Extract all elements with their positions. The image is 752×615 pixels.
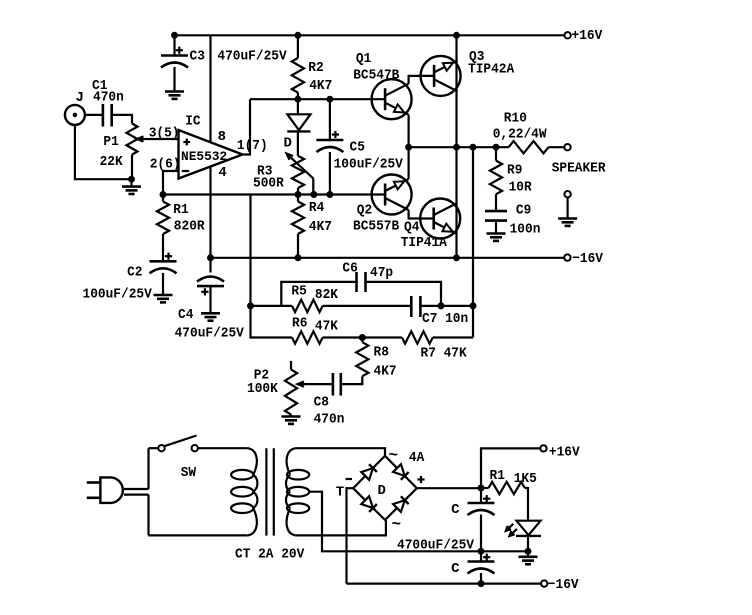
svg-text:470n: 470n <box>93 90 124 106</box>
svg-text:~: ~ <box>389 447 399 465</box>
wire R6 to R8 node <box>323 336 402 338</box>
resistor R10 <box>509 141 565 153</box>
label J <box>76 90 84 106</box>
node Q1/Q2 emitters <box>406 144 412 150</box>
svg-text:470n: 470n <box>314 412 345 428</box>
LED light arrows <box>506 524 517 536</box>
svg-text:C5: C5 <box>350 140 365 156</box>
resistor R7 <box>402 331 473 343</box>
label D (bridge) <box>378 483 386 499</box>
wire bridge minus to bottom rail <box>347 488 354 583</box>
svg-text:C2: C2 <box>127 265 142 281</box>
trimmer R3 <box>292 156 304 195</box>
transistor Q2 BC557B <box>372 175 412 215</box>
label C4 value 470uF/25V <box>175 326 245 342</box>
wire Q1 emitter to output node <box>408 115 410 148</box>
label R2 value 4K7 <box>309 78 332 94</box>
terminal -16V (amp) <box>564 254 570 260</box>
wire plug to switch <box>149 447 159 449</box>
label C (lower) <box>451 561 460 577</box>
resistor R2 <box>292 35 304 99</box>
capacitor C (lower 4700uF) <box>468 551 495 583</box>
node R9 top <box>493 144 499 150</box>
svg-text:C9: C9 <box>516 203 531 219</box>
label R6 <box>292 316 307 332</box>
node psu plus <box>478 485 484 491</box>
capacitor C1 <box>103 104 112 127</box>
resistor R5 <box>292 300 323 312</box>
svg-text:Q4: Q4 <box>404 220 419 236</box>
svg-text:J: J <box>76 90 84 106</box>
node R8 top <box>359 335 365 341</box>
node LED ground <box>525 548 531 554</box>
label BC547B <box>353 68 400 84</box>
trimmer R3 wiper arm <box>287 154 314 195</box>
label C5 <box>350 140 365 156</box>
svg-text:3(5): 3(5) <box>149 126 180 142</box>
label R3 <box>257 164 272 180</box>
terminal -16V (psu) <box>541 580 547 586</box>
label P1 value 22K <box>100 154 124 170</box>
switch SW <box>158 436 198 452</box>
wire Q1 collector to Q3 base <box>409 76 435 84</box>
svg-text:4K7: 4K7 <box>309 78 332 94</box>
svg-text:4K7: 4K7 <box>309 219 332 235</box>
wire Q4 rail vertical <box>455 147 457 258</box>
resistor R1 (psu) <box>481 482 528 520</box>
wire primary loop left lower <box>147 495 149 536</box>
svg-text:−16V: −16V <box>548 577 579 593</box>
node Q4 rail on -16V rail <box>454 255 460 261</box>
svg-text:1K5: 1K5 <box>514 471 537 487</box>
svg-text:BC547B: BC547B <box>353 68 400 84</box>
capacitor C3 <box>161 35 188 91</box>
wire C8 to P2 wiper <box>298 381 333 386</box>
svg-text:SW: SW <box>181 465 197 481</box>
bridge rectifier outline <box>353 456 417 520</box>
label C8 <box>314 395 329 411</box>
label R7 47K <box>421 346 468 362</box>
label TIP41A <box>401 235 448 251</box>
label R8 <box>374 345 389 361</box>
wire C6 to right <box>366 282 442 306</box>
LED <box>516 521 541 552</box>
bridge diode D4 (bottom-right edge) <box>393 496 409 512</box>
node feedback takeoff <box>470 144 476 150</box>
ground below C2 <box>154 295 173 302</box>
label D <box>284 136 292 152</box>
label R10 value 0,22/4W <box>493 127 547 143</box>
svg-text:4: 4 <box>218 165 226 181</box>
label P1 <box>103 134 118 150</box>
node C6 right / R5 row <box>438 303 444 309</box>
label pin 1(7) <box>237 138 268 154</box>
label R8 value 4K7 <box>374 364 397 380</box>
label +16V (amp) <box>572 28 603 44</box>
svg-text:−16V: −16V <box>572 251 603 267</box>
svg-text:100uF/25V: 100uF/25V <box>83 287 153 303</box>
svg-text:BC557B: BC557B <box>353 219 400 235</box>
svg-text:CT 2A 20V: CT 2A 20V <box>235 547 305 563</box>
wire Q3 rail vertical <box>455 35 457 147</box>
svg-text:D: D <box>284 136 292 152</box>
label P2 <box>254 368 269 384</box>
capacitor C8 <box>333 373 341 396</box>
capacitor C6 <box>357 272 366 292</box>
svg-text:C8: C8 <box>314 395 329 411</box>
label SW <box>181 465 197 481</box>
label pin 4 <box>218 165 226 181</box>
resistor R8 <box>341 338 369 385</box>
node R2 bottom / D anode <box>295 96 301 102</box>
svg-text:P1: P1 <box>103 134 118 150</box>
potentiometer P2 <box>285 361 297 417</box>
wire primary bottom <box>149 534 248 536</box>
label ~ bottom <box>392 516 402 534</box>
label BC557B <box>353 219 400 235</box>
label R3 value 500R <box>253 176 284 192</box>
wire bias node line (Q1 base line) <box>250 98 385 100</box>
svg-text:+16V: +16V <box>572 28 603 44</box>
svg-text:47K: 47K <box>315 319 339 335</box>
resistor R1 <box>157 195 169 262</box>
svg-text:C4: C4 <box>178 307 193 323</box>
wire primary loop left upper <box>147 448 149 489</box>
transformer primary winding <box>231 448 257 535</box>
op-amp plus input marker <box>183 139 190 146</box>
label C2 value 100uF/25V <box>83 287 153 303</box>
label + (bridge) <box>417 476 424 483</box>
wire pin 2 to R1 node <box>163 171 179 195</box>
label Q1 <box>356 51 371 67</box>
bridge diode D2 (top-right edge) <box>393 464 409 480</box>
wire C6 branch <box>281 282 356 306</box>
label C2 <box>127 265 142 281</box>
wire C7 to right node <box>420 305 473 307</box>
ground below LED <box>519 551 538 564</box>
node R5 row left <box>248 303 254 309</box>
svg-text:0,22/4W: 0,22/4W <box>493 127 547 143</box>
svg-text:470uF/25V: 470uF/25V <box>217 49 287 65</box>
wire C1 to P1 top <box>112 115 132 124</box>
svg-text:IC: IC <box>185 114 201 130</box>
node R3 bottom / R4 top <box>295 192 301 198</box>
label R9 <box>507 163 522 179</box>
node C5 top <box>327 96 333 102</box>
svg-text:R6: R6 <box>292 316 307 332</box>
label -16V (psu) <box>548 577 579 593</box>
svg-text:Q1: Q1 <box>356 51 371 67</box>
wire feedback vertical left <box>249 195 251 306</box>
label NE5532 <box>181 149 227 164</box>
label TIP42A <box>468 62 515 78</box>
label R6 value 47K <box>315 319 339 335</box>
wire bridge plus to node <box>417 487 481 489</box>
wire pin 8 to +16V rail <box>209 35 211 142</box>
capacitor C (upper 4700uF) <box>468 488 495 551</box>
wire center tap <box>309 492 528 552</box>
resistor R6 <box>292 331 323 343</box>
svg-text:Q2: Q2 <box>357 203 372 219</box>
label Q4 <box>404 220 419 236</box>
wire feedback R7 riser <box>472 306 474 338</box>
svg-text:100uF/25V: 100uF/25V <box>334 157 404 173</box>
svg-text:500R: 500R <box>253 176 284 192</box>
diode D <box>287 99 310 156</box>
label R5 value 82K <box>315 287 339 303</box>
plug cord <box>124 489 149 495</box>
svg-text:R1: R1 <box>490 468 505 484</box>
svg-text:~: ~ <box>392 516 402 534</box>
label -16V (amp) <box>572 251 603 267</box>
label 4700uF/25V <box>397 538 475 554</box>
node pin4/C4 on -16V rail <box>208 255 214 261</box>
wire speaker ground stem <box>566 197 568 218</box>
label R4 value 4K7 <box>309 219 332 235</box>
bridge diode D3 (left-bottom edge) <box>361 496 377 512</box>
label R1 value 820R <box>174 219 205 235</box>
capacitor C4 <box>197 258 224 314</box>
bridge diode D1 (left-top edge) <box>361 464 377 480</box>
label R4 <box>309 200 324 216</box>
node R1 top / pin2 <box>160 192 166 198</box>
label C9 <box>516 203 531 219</box>
label +16V (psu) <box>549 445 580 461</box>
capacitor C5 <box>316 99 343 194</box>
label C4 <box>178 307 193 323</box>
label R5 <box>291 284 306 300</box>
svg-text:TIP42A: TIP42A <box>468 62 515 78</box>
capacitor C2 <box>150 253 177 295</box>
svg-text:100n: 100n <box>510 222 541 238</box>
svg-text:SPEAKER: SPEAKER <box>552 161 606 177</box>
label C3 value 470uF/25V <box>217 49 287 65</box>
svg-text:C7 10n: C7 10n <box>422 311 468 327</box>
label R10 <box>504 111 527 127</box>
svg-text:C6: C6 <box>342 261 357 277</box>
node Q3 rail on +16V rail <box>454 32 460 38</box>
svg-text:4K7: 4K7 <box>374 364 397 380</box>
label C6 value 47p <box>370 265 393 281</box>
wire output node line <box>409 146 509 148</box>
label P2 value 100K <box>247 381 278 397</box>
label SPEAKER <box>552 161 606 177</box>
transistor Q4 TIP41A <box>420 199 460 239</box>
node center tap / caps <box>478 548 484 554</box>
svg-text:4700uF/25V: 4700uF/25V <box>397 538 475 554</box>
wire -16V rail (psu) <box>347 582 542 584</box>
label pin 2(6) <box>150 157 181 173</box>
AC plug <box>87 477 123 503</box>
label 4A <box>409 450 425 466</box>
label C6 <box>342 261 357 277</box>
wire pin 4 to -16V rail <box>209 166 211 257</box>
svg-text:R8: R8 <box>374 345 389 361</box>
label CT 2A 20V <box>235 547 305 563</box>
svg-text:8: 8 <box>218 129 226 145</box>
label C7 10n <box>422 311 468 327</box>
label Q3 <box>469 49 484 65</box>
transistor Q1 BC547B <box>372 79 412 119</box>
label R1 value 1K5 <box>514 471 537 487</box>
wire secondary bottom to bridge <box>296 520 386 535</box>
capacitor C7 <box>411 296 420 317</box>
wire -16V rail (amp) <box>211 257 564 259</box>
svg-text:D: D <box>378 483 386 499</box>
label C9 value 100n <box>510 222 541 238</box>
label pin 8 <box>218 129 226 145</box>
wire jack to C1 <box>85 114 103 116</box>
wire switch to primary <box>198 447 248 449</box>
wire R5 row left segment <box>251 305 293 307</box>
wire Q2 base line <box>163 193 385 195</box>
svg-text:R9: R9 <box>507 163 522 179</box>
node R4 bottom on -16V rail <box>295 255 301 261</box>
svg-text:82K: 82K <box>315 287 339 303</box>
label R2 <box>308 60 323 76</box>
transformer core <box>266 448 273 535</box>
svg-text:1(7): 1(7) <box>237 138 268 154</box>
label C8 value 470n <box>314 412 345 428</box>
svg-text:820R: 820R <box>174 219 205 235</box>
label C (upper) <box>451 502 460 518</box>
svg-text:NE5532: NE5532 <box>181 149 227 164</box>
op-amp minus input marker <box>182 170 189 172</box>
label C1 value 470n <box>93 90 124 106</box>
transformer secondary winding <box>286 448 309 535</box>
terminal +16V (psu) <box>540 445 546 451</box>
svg-text:R7 47K: R7 47K <box>421 346 468 362</box>
potentiometer P1 <box>127 124 138 180</box>
svg-text:R10: R10 <box>504 111 527 127</box>
capacitor C9 <box>485 211 507 233</box>
jack J <box>65 105 85 125</box>
transistor Q3 TIP42A <box>421 56 461 96</box>
wire +16V top rail <box>172 34 565 36</box>
label pin 3(5) <box>149 126 180 142</box>
ground below C3 <box>165 92 184 99</box>
wire Q2 collector to Q4 base <box>409 210 434 219</box>
svg-text:470uF/25V: 470uF/25V <box>175 326 245 342</box>
node feedback/R5 right <box>470 303 476 309</box>
node lower C on -16V rail <box>478 581 484 587</box>
wire feedback vertical right <box>472 147 474 306</box>
node R2 top on +16V rail <box>295 32 301 38</box>
label R9 value 10R <box>509 180 533 196</box>
label C5 value 100uF/25V <box>334 157 404 173</box>
terminal +16V (amp) <box>564 32 570 38</box>
svg-text:T: T <box>336 485 344 501</box>
svg-text:R5: R5 <box>291 284 306 300</box>
svg-text:R2: R2 <box>308 60 323 76</box>
svg-text:C: C <box>451 561 460 577</box>
ground below P1 <box>122 179 141 194</box>
svg-text:+16V: +16V <box>549 445 580 461</box>
label R1 <box>173 202 188 218</box>
resistor R9 <box>490 147 502 211</box>
label ~ top <box>389 447 399 465</box>
ground below C9 <box>487 234 506 241</box>
svg-text:R4: R4 <box>309 200 324 216</box>
terminal speaker output <box>564 144 570 150</box>
svg-text:C3: C3 <box>190 49 205 65</box>
svg-text:4A: 4A <box>409 450 425 466</box>
wire opamp output up to bias node <box>243 99 251 154</box>
node C5 bottom <box>327 192 333 198</box>
wire jack ground leg <box>75 125 132 179</box>
node P1 bottom ground <box>129 176 135 182</box>
label IC <box>185 114 201 130</box>
ground speaker <box>558 219 577 226</box>
svg-text:C: C <box>451 502 460 518</box>
svg-text:TIP41A: TIP41A <box>401 235 448 251</box>
label T <box>336 479 352 501</box>
label C1 <box>92 78 107 94</box>
label Q2 <box>357 203 372 219</box>
node R3 wiper bottom <box>311 192 317 198</box>
wire P1 wiper to opamp pin3 <box>137 136 179 141</box>
svg-text:22K: 22K <box>100 154 124 170</box>
wire Q2 emitter to output node <box>408 147 410 179</box>
resistor R4 <box>292 195 304 258</box>
wire secondary top to bridge <box>296 448 385 456</box>
ground below C4 <box>201 313 220 320</box>
svg-text:47p: 47p <box>370 265 393 281</box>
op-amp U1 NE5532 triangle <box>179 130 243 179</box>
wire R5 to C7 <box>323 305 412 307</box>
ground below P2 <box>282 417 301 424</box>
svg-text:R1: R1 <box>173 202 188 218</box>
node C3 on +16V rail <box>172 32 178 38</box>
node Q3/Q4 rail output <box>454 144 460 150</box>
label C3 <box>190 49 205 65</box>
terminal speaker ground <box>564 191 570 197</box>
svg-text:10R: 10R <box>509 180 533 196</box>
label R1 (psu) <box>490 468 505 484</box>
wire plus node up to +16V <box>481 448 540 488</box>
wire R6 row L-bend <box>251 306 293 338</box>
svg-text:100K: 100K <box>247 381 278 397</box>
